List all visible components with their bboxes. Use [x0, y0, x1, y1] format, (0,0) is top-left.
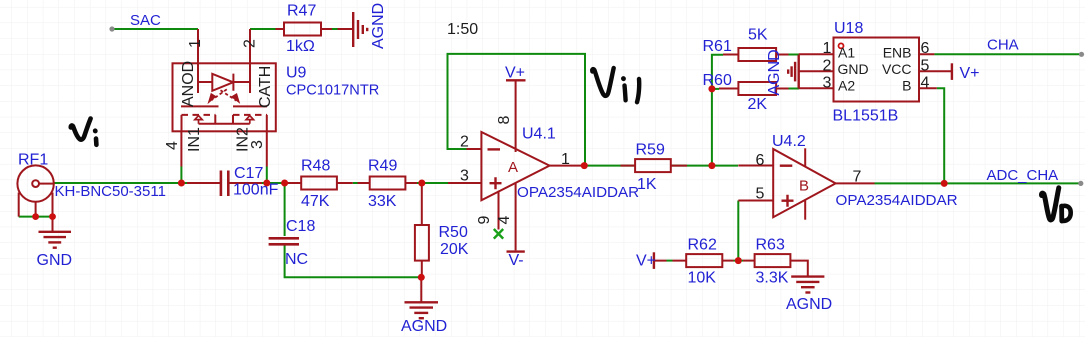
svg-text:V-: V- — [509, 252, 524, 269]
svg-text:2K: 2K — [748, 96, 768, 113]
resistor R47 — [276, 23, 353, 36]
svg-text:AGND: AGND — [786, 296, 832, 313]
op-amp U4.2 — [738, 148, 874, 219]
no-connect X on U4.1 pin9 — [494, 229, 503, 239]
resistor R60 — [719, 82, 789, 95]
svg-text:CATH: CATH — [257, 66, 274, 108]
svg-text:AGND: AGND — [370, 3, 387, 49]
node BNC shield junction 2 — [49, 213, 56, 220]
svg-text:IN2: IN2 — [235, 127, 252, 152]
svg-text:1:50: 1:50 — [447, 21, 478, 38]
svg-text:4: 4 — [496, 216, 513, 225]
svg-text:ANOD: ANOD — [180, 61, 197, 107]
power V+ at R62 (rotated) — [653, 252, 655, 269]
svg-text:R63: R63 — [756, 236, 785, 253]
wire main input line BNC to C17 — [54, 182, 187, 184]
svg-text:C18: C18 — [286, 218, 315, 235]
svg-text:CHA: CHA — [987, 37, 1019, 54]
node R62/R63 junction — [735, 257, 742, 264]
svg-text:A1: A1 — [838, 45, 855, 61]
svg-text:1: 1 — [561, 151, 570, 168]
svg-text:10K: 10K — [688, 270, 717, 287]
wire R62 to node — [734, 260, 744, 262]
annotation handwritten Vi1 — [592, 68, 639, 102]
op-amp U4.1 — [448, 80, 582, 251]
node SAC endpoint — [109, 26, 114, 31]
svg-text:R61: R61 — [703, 38, 732, 55]
svg-text:ADC_CHA: ADC_CHA — [987, 167, 1059, 184]
wire C18 branch down — [284, 183, 286, 236]
ground AGND at U18 pin2 (rotated) — [788, 55, 799, 89]
node U9 pin4 on input line — [178, 180, 185, 187]
wire feedback loop U4.1 — [448, 54, 586, 166]
svg-text:1: 1 — [187, 39, 204, 48]
node CHA endpoint — [1079, 52, 1084, 57]
connector RF1 BNC — [17, 165, 54, 231]
wire R47 to AGND green tick — [332, 28, 339, 30]
wire R60 lead tick — [712, 88, 719, 90]
svg-text:RF1: RF1 — [18, 152, 48, 169]
wire C17 to R48 — [262, 182, 286, 184]
svg-text:9: 9 — [476, 216, 493, 225]
node U4.1 output junction — [581, 162, 588, 169]
ground AGND right of R47 (rotated) — [353, 12, 367, 47]
resistor R61 — [723, 48, 789, 61]
analog switch U18 BL1551B — [799, 38, 952, 102]
svg-text:VCC: VCC — [882, 61, 912, 77]
svg-text:U4.1: U4.1 — [522, 126, 556, 143]
svg-text:5: 5 — [921, 58, 930, 75]
svg-text:33K: 33K — [368, 193, 397, 210]
wire R59 node up to R60/R61 — [711, 89, 713, 166]
svg-text:3: 3 — [460, 168, 469, 185]
resistor R50 — [415, 183, 429, 302]
svg-text:R49: R49 — [368, 157, 397, 174]
svg-text:AGND: AGND — [401, 318, 447, 335]
power V+ at U18 pin5 — [951, 63, 953, 80]
ground GND at RF1 — [39, 232, 72, 248]
wire U4.2 pin5 branch down to R62/R63 — [737, 201, 739, 261]
wire R49 to op-amp pin3 — [417, 182, 448, 184]
svg-text:V+: V+ — [960, 65, 980, 82]
wire U4.1 output to R59 — [584, 165, 636, 167]
annotation handwritten Vi — [71, 119, 97, 145]
node BNC shield junction 1 — [32, 213, 39, 220]
svg-text:7: 7 — [853, 169, 862, 186]
power V+ above U4.1 pin8 — [0, 0, 1, 1]
svg-text:5K: 5K — [748, 27, 768, 44]
svg-text:4: 4 — [164, 141, 181, 150]
svg-text:2: 2 — [242, 39, 259, 48]
svg-text:GND: GND — [37, 252, 73, 269]
node C18 branch — [281, 180, 288, 187]
wire U4.2 output to ADC_CHA — [875, 182, 1081, 184]
svg-text:2: 2 — [460, 134, 469, 151]
node U9 pin3 on input line — [263, 180, 270, 187]
svg-text:8: 8 — [496, 116, 513, 125]
svg-text:3: 3 — [249, 140, 266, 149]
svg-text:20K: 20K — [440, 241, 469, 258]
svg-text:OPA2354AIDDAR: OPA2354AIDDAR — [517, 184, 639, 201]
wire R59 to U4.2 pin6 — [671, 165, 738, 167]
resistor R62 — [654, 254, 734, 267]
svg-text:R59: R59 — [636, 142, 665, 159]
svg-text:C17: C17 — [234, 165, 263, 182]
node R49/R50 junction — [418, 180, 425, 187]
wire U18 pin4 down to output line — [937, 88, 944, 183]
svg-text:A: A — [508, 159, 518, 176]
svg-text:ENB: ENB — [883, 45, 912, 61]
wire up to R61 row — [712, 55, 723, 89]
node R60 branch junction — [708, 85, 715, 92]
svg-text:CPC1017NTR: CPC1017NTR — [286, 83, 379, 99]
capacitor C17 — [187, 171, 262, 197]
svg-text:1K: 1K — [637, 176, 657, 193]
svg-text:KH-BNC50-3511: KH-BNC50-3511 — [55, 183, 166, 200]
svg-text:B: B — [902, 78, 911, 94]
node ADC line junction — [941, 180, 948, 187]
svg-text:V+: V+ — [636, 253, 656, 270]
svg-text:V+: V+ — [505, 65, 525, 82]
wire R48-R49 mid green tick — [353, 182, 358, 184]
resistor R48 — [286, 177, 353, 190]
svg-text:6: 6 — [756, 152, 765, 169]
svg-text:AGND: AGND — [766, 49, 783, 95]
svg-text:A2: A2 — [838, 78, 855, 94]
resistor R59 — [621, 159, 688, 172]
svg-text:R62: R62 — [688, 236, 717, 253]
svg-text:2: 2 — [823, 58, 832, 75]
svg-text:R47: R47 — [287, 3, 316, 20]
svg-text:NC: NC — [285, 251, 308, 268]
svg-text:R60: R60 — [703, 72, 732, 89]
svg-text:3.3K: 3.3K — [756, 270, 789, 287]
wire R61 to U18 pin1 — [789, 54, 800, 56]
svg-text:6: 6 — [921, 40, 930, 57]
wire R62 lead tick — [667, 260, 673, 262]
svg-text:3: 3 — [823, 75, 832, 92]
wire C18 bottom to ground line — [285, 246, 422, 278]
svg-text:47K: 47K — [301, 193, 330, 210]
wire U9 pin2 to R47 — [250, 28, 276, 30]
capacitor C18 — [269, 238, 299, 244]
svg-text:100nF: 100nF — [233, 182, 279, 199]
svg-text:5: 5 — [756, 186, 765, 203]
svg-text:GND: GND — [838, 61, 869, 77]
svg-text:1kΩ: 1kΩ — [286, 38, 315, 55]
svg-text:4: 4 — [921, 75, 930, 92]
optocoupler U9 — [173, 29, 276, 183]
svg-text:U4.2: U4.2 — [772, 133, 806, 150]
wire BNC shield — [19, 216, 53, 218]
node R59 output junction — [708, 162, 715, 169]
resistor R49 — [358, 177, 418, 190]
ground AGND under R50 — [405, 302, 439, 318]
wire U18 pin6 to CHA — [934, 53, 1081, 55]
wire SAC net — [112, 28, 198, 30]
svg-text:R48: R48 — [301, 157, 330, 174]
svg-text:SAC: SAC — [130, 12, 161, 29]
svg-text:1: 1 — [823, 40, 832, 57]
svg-text:BL1551B: BL1551B — [833, 108, 899, 125]
ground AGND at R63 — [791, 277, 824, 293]
wire R60 to U18 pin3 — [789, 88, 800, 90]
svg-text:IN1: IN1 — [186, 127, 203, 152]
node R50 bottom junction — [418, 274, 425, 281]
svg-text:B: B — [799, 178, 809, 195]
svg-text:U18: U18 — [834, 20, 863, 37]
svg-text:R50: R50 — [439, 224, 468, 241]
svg-text:U9: U9 — [286, 65, 307, 82]
resistor R63 — [743, 254, 808, 276]
annotation handwritten VD — [1042, 188, 1071, 221]
node ADC_CHA endpoint — [1078, 181, 1083, 186]
svg-text:OPA2354AIDDAR: OPA2354AIDDAR — [836, 192, 958, 209]
